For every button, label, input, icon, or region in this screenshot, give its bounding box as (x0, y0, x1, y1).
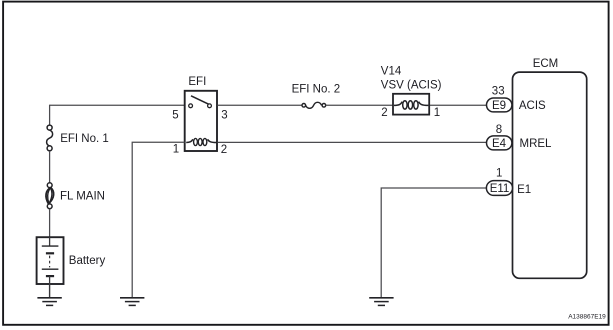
ground (relay pin 1) (120, 298, 144, 306)
svg-text:5: 5 (172, 110, 178, 122)
wire: left vertical from rail to fuse EFI No.1 (49, 105, 51, 126)
ground (battery) (37, 298, 61, 306)
fuse EFI No.2 (302, 102, 326, 108)
svg-text:1: 1 (434, 107, 440, 119)
svg-text:EFI: EFI (188, 76, 206, 88)
wire: battery rail to relay pin 5 (50, 104, 185, 106)
svg-text:FL MAIN: FL MAIN (60, 191, 105, 203)
svg-text:E1: E1 (517, 184, 531, 196)
wire: relay pin 1 to ground (132, 142, 184, 297)
svg-text:E11: E11 (490, 183, 510, 195)
svg-text:V14: V14 (381, 66, 402, 78)
ECM U1 (513, 72, 587, 278)
wire: battery to ground (49, 284, 51, 298)
battery (37, 237, 64, 284)
svg-text:33: 33 (492, 85, 505, 97)
svg-text:Battery: Battery (69, 255, 106, 267)
svg-text:EFI No. 2: EFI No. 2 (292, 83, 341, 95)
svg-text:ECM: ECM (533, 58, 559, 70)
VSV V14 (ACIS) (393, 94, 429, 115)
ground (E1) (369, 298, 393, 306)
relay EFI (185, 91, 217, 151)
svg-text:2: 2 (221, 144, 227, 156)
svg-text:2: 2 (381, 107, 387, 119)
wire: FL MAIN to battery (49, 209, 51, 238)
svg-text:1: 1 (496, 168, 502, 180)
svg-text:1: 1 (173, 144, 179, 156)
wire: relay pin 3 to fuse EFI No.2 (217, 104, 302, 106)
fuse EFI No.1 (47, 125, 53, 151)
svg-text:ACIS: ACIS (519, 100, 546, 112)
svg-text:3: 3 (221, 110, 227, 122)
svg-text:A138867E19: A138867E19 (568, 313, 606, 320)
wire: VSV to ECM pin E9 (430, 104, 487, 106)
wire: ECM pin E11 to ground (381, 188, 487, 298)
svg-text:VSV (ACIS): VSV (ACIS) (381, 79, 442, 91)
wire: fuse EFI No.1 to FL MAIN (49, 151, 51, 183)
connector pin E11 (486, 181, 512, 196)
connector pin E4 (487, 136, 512, 150)
wire: fuse EFI No.2 to VSV (326, 104, 393, 106)
fusible link FL MAIN (46, 183, 54, 209)
connector pin E9 (487, 98, 512, 112)
svg-text:MREL: MREL (520, 138, 553, 150)
svg-text:E9: E9 (492, 100, 506, 112)
svg-text:8: 8 (496, 124, 502, 136)
svg-text:E4: E4 (492, 138, 507, 150)
wire: relay pin 2 to ECM pin E4 (217, 141, 487, 143)
svg-text:EFI No. 1: EFI No. 1 (60, 133, 109, 145)
